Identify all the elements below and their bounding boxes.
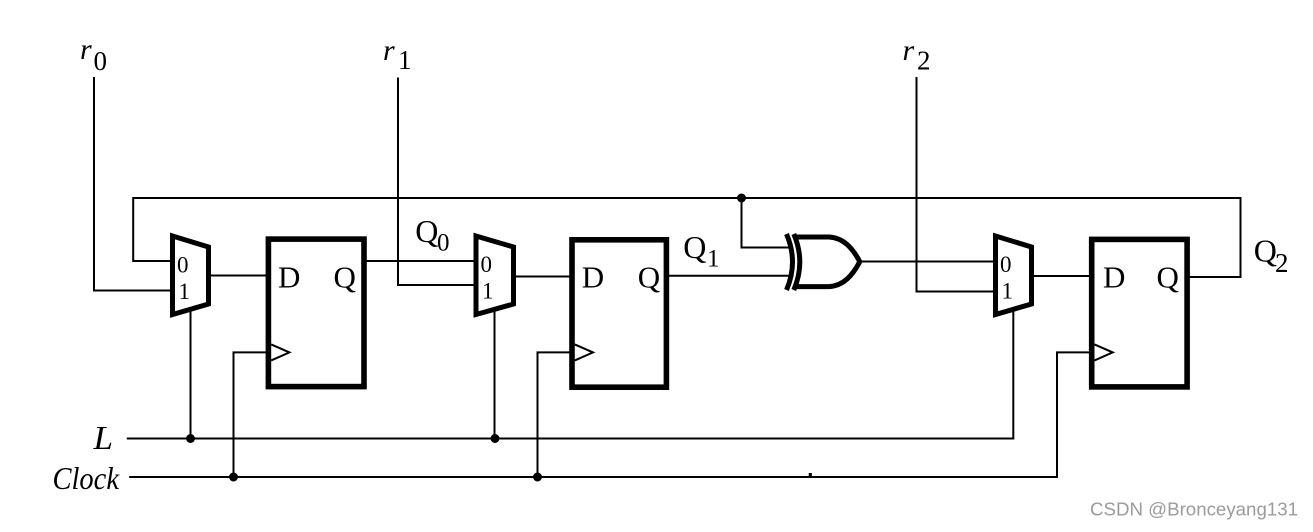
svg-text:D: D (1103, 260, 1125, 295)
label r1 (383, 34, 412, 75)
label r2 (903, 34, 931, 76)
label r0 (80, 33, 107, 76)
wire XOR output to mux3 pin 0 (858, 261, 994, 263)
svg-text:0: 0 (177, 253, 189, 278)
svg-text:Q: Q (1254, 233, 1277, 269)
mux U3 (996, 236, 1032, 315)
clock triangle FF1 (271, 344, 289, 360)
wire Clock line to FF3 clock (129, 352, 1090, 477)
svg-text:Clock: Clock (53, 461, 120, 496)
wire mux U1 select to L line (190, 308, 192, 439)
wire feedback tap to XOR top input (742, 198, 791, 248)
wire mux U1 output to FF1 D (210, 275, 266, 277)
wire L line to mux3 select (127, 308, 1014, 439)
svg-text:r: r (80, 33, 92, 66)
svg-text:1: 1 (179, 279, 191, 304)
wire FF2 Q to XOR bottom input (Q1 net) (668, 275, 790, 277)
node L to mux2 select (491, 434, 500, 443)
svg-text:r: r (903, 34, 915, 67)
svg-text:D: D (278, 260, 300, 295)
svg-text:0: 0 (481, 252, 493, 277)
node Clock to FF2 clock (533, 473, 542, 482)
mux U2 (476, 236, 514, 315)
wire r2 input to mux3 pin 1 (917, 77, 994, 292)
label Q2 (1254, 233, 1289, 279)
node junction on feedback line (737, 194, 746, 203)
node artifact nub on Clock line (809, 473, 812, 477)
label Q1 (683, 229, 719, 273)
wire FF1 Q to mux2 pin 0 (Q0 net) (366, 260, 474, 262)
wire r0 input to mux1 pin 1 (94, 77, 171, 291)
svg-text:2: 2 (917, 46, 931, 76)
svg-text:Q: Q (683, 229, 706, 265)
node Clock to FF1 clock (229, 473, 238, 482)
svg-text:L: L (92, 420, 113, 457)
svg-text:0: 0 (1000, 252, 1012, 277)
mux U1 (173, 236, 209, 315)
wire mux U2 output to FF2 D (515, 276, 570, 278)
svg-text:Q: Q (1157, 260, 1179, 295)
xor gate G1 body (794, 234, 800, 290)
flip-flop FF2 (572, 240, 666, 387)
clock triangle FF2 (575, 344, 593, 360)
clock triangle FF3 (1095, 344, 1113, 360)
svg-text:1: 1 (1002, 279, 1014, 304)
svg-text:D: D (582, 260, 604, 295)
svg-text:r: r (383, 34, 395, 67)
wire mux U3 output to FF3 D (1033, 275, 1090, 277)
svg-text:1: 1 (482, 279, 494, 304)
wire mux U2 select to L line (494, 308, 496, 439)
svg-text:CSDN @Bronceyang131: CSDN @Bronceyang131 (1090, 499, 1298, 520)
node L to mux1 select (186, 434, 195, 443)
wire FF1 clock to Clock line (234, 352, 267, 477)
svg-text:0: 0 (94, 46, 108, 76)
wire feedback from Q2 to mux1 pin 0 (133, 198, 1240, 277)
svg-text:1: 1 (707, 246, 720, 273)
wire r1 input to mux2 pin 1 (398, 78, 474, 286)
wire FF2 clock to Clock line (538, 352, 571, 477)
label Q0 (415, 213, 449, 257)
svg-text:Q: Q (638, 260, 660, 295)
svg-text:Q: Q (415, 213, 438, 249)
svg-text:1: 1 (398, 45, 412, 75)
svg-text:0: 0 (437, 230, 450, 257)
svg-text:Q: Q (334, 260, 356, 295)
flip-flop FF1 (268, 239, 364, 387)
flip-flop FF3 (1092, 239, 1187, 387)
svg-text:2: 2 (1275, 248, 1289, 278)
xor gate G1 input arc (787, 234, 793, 290)
